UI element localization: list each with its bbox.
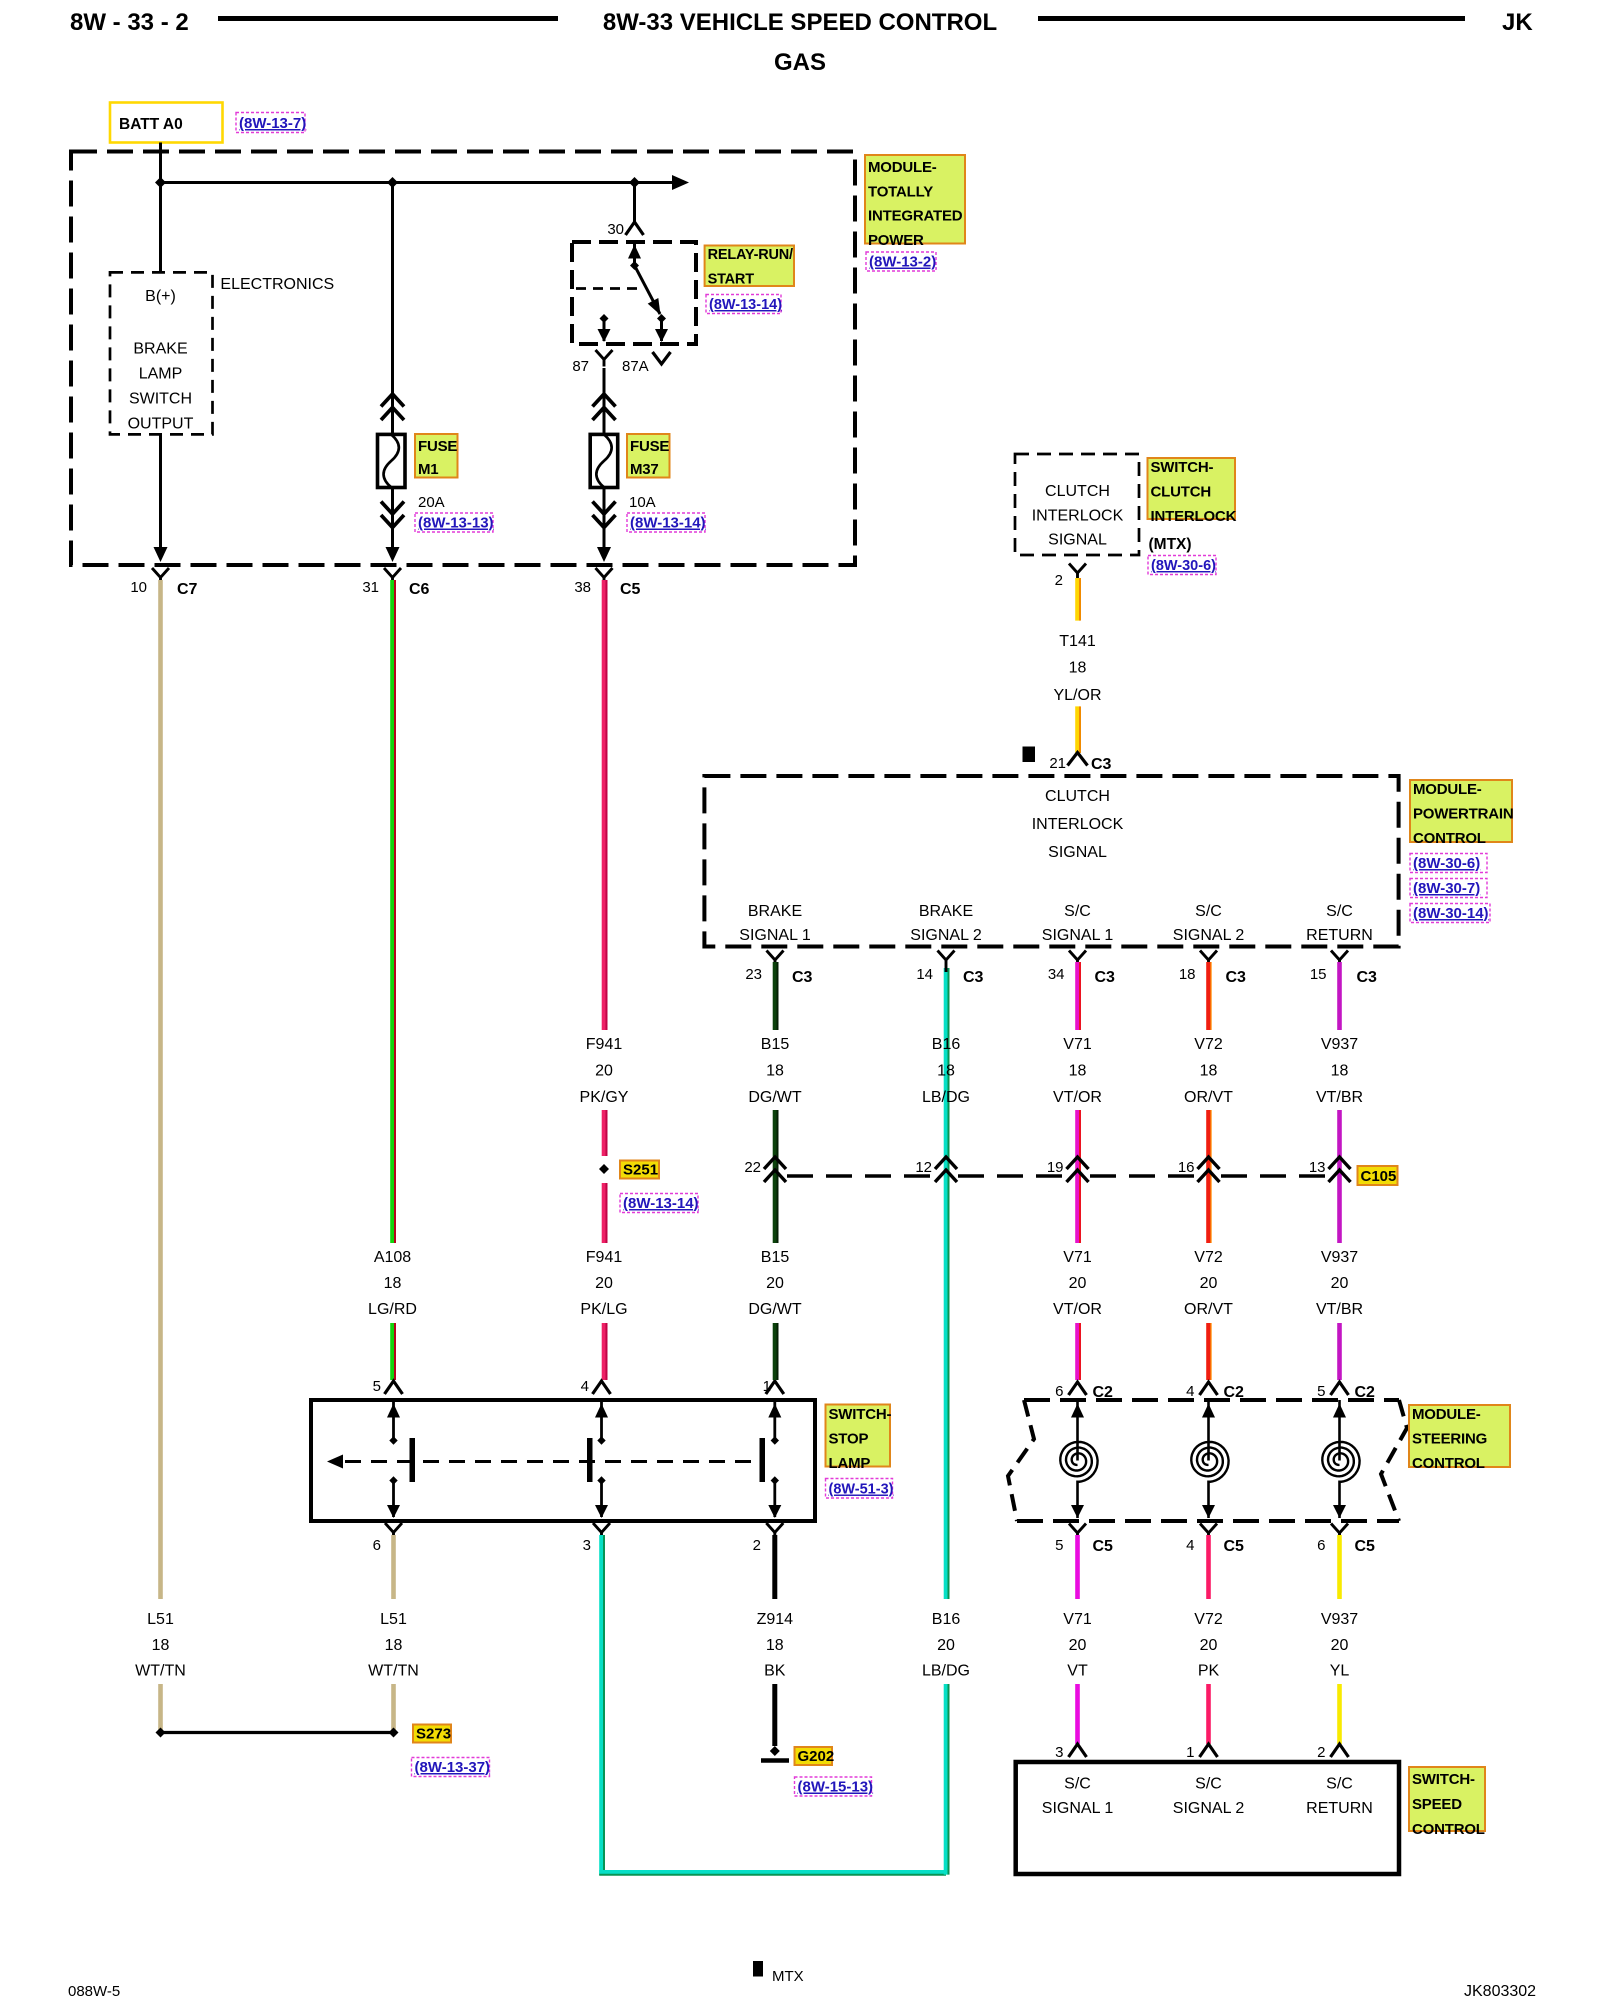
svg-text:Z914: Z914	[757, 1611, 794, 1628]
svg-text:21: 21	[1049, 755, 1066, 772]
link 8W-13-7	[236, 113, 306, 133]
svg-text:SWITCH-: SWITCH-	[829, 1406, 892, 1423]
stop lamp pin 1	[763, 1378, 784, 1395]
svg-text:POWERTRAIN: POWERTRAIN	[1413, 806, 1514, 823]
C105 pin 13	[1309, 1157, 1351, 1182]
svg-text:INTEGRATED: INTEGRATED	[868, 208, 963, 225]
wire V71 VT to speed control pin 3	[1075, 1684, 1080, 1744]
svg-text:V937: V937	[1321, 1249, 1358, 1266]
svg-text:VT: VT	[1067, 1663, 1088, 1680]
svg-text:20: 20	[595, 1275, 613, 1292]
svg-text:DG/WT: DG/WT	[748, 1089, 802, 1106]
svg-text:B15: B15	[761, 1249, 790, 1266]
svg-text:M1: M1	[418, 461, 438, 478]
splice S251	[599, 1164, 609, 1174]
label C105	[1358, 1166, 1398, 1185]
svg-text:SIGNAL 1: SIGNAL 1	[1042, 927, 1114, 944]
svg-text:8W - 33 - 2: 8W - 33 - 2	[70, 9, 189, 36]
svg-text:20: 20	[766, 1275, 784, 1292]
wire V72 OR/VT to steering C2 4	[1206, 1323, 1211, 1380]
svg-text:SIGNAL 2: SIGNAL 2	[910, 927, 982, 944]
PCM internal CLUTCH INTERLOCK SIGNAL	[1032, 788, 1124, 861]
clockspring coil at 5	[1333, 1400, 1346, 1461]
label SWITCH-CLUTCH INTERLOCK	[1148, 458, 1237, 525]
PCM internal BRAKE SIGNAL 2	[910, 903, 982, 944]
svg-text:8W-33 VEHICLE SPEED CONTROL: 8W-33 VEHICLE SPEED CONTROL	[603, 9, 997, 36]
svg-text:(8W-13-14): (8W-13-14)	[709, 297, 782, 313]
svg-text:V71: V71	[1063, 1036, 1092, 1053]
svg-text:T141: T141	[1059, 633, 1096, 650]
wire fuse M1 to C6 exit	[381, 488, 404, 563]
svg-text:19: 19	[1047, 1159, 1064, 1176]
stop lamp actuator dashed link with arrow	[327, 1455, 762, 1469]
wire A108 LG/RD to stop lamp switch pin 5	[390, 1323, 395, 1380]
wire B16 LB/DG from stop lamp pin 3 down	[599, 1535, 604, 1875]
svg-text:C2: C2	[1355, 1384, 1376, 1401]
svg-text:6: 6	[1317, 1537, 1325, 1554]
svg-text:SIGNAL 1: SIGNAL 1	[739, 927, 811, 944]
svg-text:L51: L51	[380, 1611, 407, 1628]
svg-text:GAS: GAS	[774, 49, 826, 76]
svg-text:18: 18	[937, 1063, 955, 1080]
wire T141 YL/OR to PCM pin 21	[1075, 706, 1080, 753]
svg-text:12: 12	[915, 1159, 932, 1176]
wire V71 VT/OR from PCM 34	[1075, 962, 1080, 1030]
svg-text:WT/TN: WT/TN	[135, 1663, 186, 1680]
svg-text:10A: 10A	[629, 494, 656, 511]
junction node bus/fuse M1	[387, 177, 398, 188]
label S273	[413, 1725, 451, 1743]
svg-text:(8W-30-14): (8W-30-14)	[1413, 905, 1489, 922]
wire Z914 BK from stop lamp pin 2	[772, 1535, 777, 1599]
svg-text:87A: 87A	[622, 358, 649, 375]
svg-text:16: 16	[1178, 1159, 1195, 1176]
svg-text:C5: C5	[1355, 1538, 1376, 1555]
svg-text:SWITCH: SWITCH	[129, 390, 192, 407]
splice S273 wire join	[156, 1728, 399, 1738]
svg-text:2: 2	[753, 1537, 761, 1554]
svg-text:(8W-13-7): (8W-13-7)	[239, 115, 306, 132]
svg-text:10: 10	[130, 579, 147, 596]
wire B16 LB/DG riser	[944, 1684, 949, 1875]
speed control pin 3	[1055, 1744, 1086, 1761]
stop lamp contact pole 4-3	[587, 1400, 608, 1518]
steering C2 pin 5	[1317, 1382, 1375, 1401]
svg-text:(MTX): (MTX)	[1149, 536, 1192, 553]
label FUSE M1	[415, 434, 458, 478]
svg-text:18: 18	[1069, 1063, 1087, 1080]
wire relay 87 to fuse M37	[593, 368, 616, 434]
svg-text:STEERING: STEERING	[1412, 1431, 1487, 1448]
svg-text:20: 20	[595, 1063, 613, 1080]
link 8W-13-14 splice	[620, 1194, 699, 1213]
link 8W-30-14	[1410, 904, 1490, 923]
svg-text:31: 31	[362, 579, 379, 596]
svg-text:87: 87	[572, 358, 589, 375]
switch stop lamp box	[311, 1400, 815, 1521]
relay common contact from pin 30	[628, 244, 641, 270]
wire V937 YL to speed control pin 2	[1337, 1684, 1342, 1744]
wire F941 PK/GY to splice S251	[602, 1110, 607, 1156]
svg-text:18: 18	[384, 1275, 402, 1292]
wire V71 VT/OR to C105 19	[1075, 1110, 1080, 1243]
PCM pin 34 C3	[1048, 951, 1115, 987]
svg-text:18: 18	[766, 1063, 784, 1080]
svg-text:V72: V72	[1194, 1611, 1223, 1628]
footnote square MTX marker	[1023, 747, 1036, 763]
svg-text:FUSE: FUSE	[418, 438, 457, 455]
svg-text:(8W-30-6): (8W-30-6)	[1151, 558, 1216, 574]
relay RUN/START dashed box	[572, 242, 696, 344]
svg-text:S/C: S/C	[1195, 1776, 1222, 1793]
svg-text:LAMP: LAMP	[829, 1455, 871, 1472]
svg-text:YL/OR: YL/OR	[1053, 687, 1101, 704]
clutch switch pin 2	[1055, 564, 1086, 590]
steering C5 pin 4	[1186, 1524, 1244, 1556]
terminal 87A connector chevron	[653, 352, 671, 364]
wire bus to relay pin 30	[626, 183, 644, 236]
label MODULE-TOTALLY INTEGRATED POWER	[865, 155, 965, 249]
ground G202	[761, 1746, 789, 1761]
svg-text:SIGNAL 2: SIGNAL 2	[1173, 927, 1245, 944]
svg-text:DG/WT: DG/WT	[748, 1301, 802, 1318]
svg-text:S273: S273	[416, 1726, 451, 1743]
steering C2 pin 6	[1055, 1382, 1113, 1401]
svg-text:(8W-30-7): (8W-30-7)	[1413, 880, 1480, 897]
svg-text:CLUTCH: CLUTCH	[1045, 483, 1110, 500]
svg-text:VT/OR: VT/OR	[1053, 1089, 1102, 1106]
fuse M37	[590, 434, 618, 487]
svg-text:(8W-13-13): (8W-13-13)	[418, 515, 494, 532]
svg-text:20: 20	[1200, 1275, 1218, 1292]
connector C105 dashed line	[787, 1174, 1327, 1177]
svg-text:BRAKE: BRAKE	[919, 903, 973, 920]
C105 pin 22	[744, 1157, 786, 1182]
svg-text:B15: B15	[761, 1036, 790, 1053]
connector pin 31 C6	[362, 568, 429, 598]
svg-text:20: 20	[1069, 1637, 1087, 1654]
svg-text:F941: F941	[586, 1249, 623, 1266]
stop lamp pin 3	[583, 1523, 610, 1554]
svg-text:RETURN: RETURN	[1306, 1800, 1373, 1817]
C105 pin 12	[915, 1157, 957, 1182]
svg-text:MODULE-: MODULE-	[1412, 1406, 1481, 1423]
svg-text:18: 18	[1331, 1063, 1349, 1080]
svg-text:PK/GY: PK/GY	[580, 1089, 629, 1106]
wire V72 OR/VT to C105 16	[1206, 1110, 1211, 1243]
stop lamp pin 5	[373, 1378, 403, 1395]
svg-text:2: 2	[1317, 1744, 1325, 1761]
svg-text:VT/OR: VT/OR	[1053, 1301, 1102, 1318]
wire B15 DG/WT to stop lamp pin 1	[773, 1323, 778, 1380]
PCM pin 15 C3	[1310, 951, 1377, 987]
link 8W-13-13	[415, 513, 494, 532]
svg-text:C3: C3	[1091, 756, 1112, 773]
svg-text:BATT A0: BATT A0	[119, 116, 183, 133]
svg-text:S/C: S/C	[1064, 903, 1091, 920]
wire V72 OR/VT from PCM 18	[1206, 962, 1211, 1030]
svg-text:G202: G202	[798, 1748, 835, 1765]
link 8W-30-7	[1410, 879, 1487, 898]
svg-text:C3: C3	[1357, 969, 1378, 986]
svg-text:A108: A108	[374, 1249, 411, 1266]
svg-text:BRAKE: BRAKE	[748, 903, 802, 920]
svg-text:B16: B16	[932, 1036, 961, 1053]
PCM pin 14 C3	[916, 951, 983, 987]
svg-text:34: 34	[1048, 966, 1065, 983]
wire fuse M37 to C5 exit	[593, 488, 616, 563]
svg-text:18: 18	[152, 1637, 170, 1654]
C105 pin 16	[1178, 1157, 1220, 1182]
wire F941 PK/GY from C5	[602, 580, 607, 1030]
svg-text:2: 2	[1055, 572, 1063, 589]
svg-text:START: START	[708, 272, 755, 288]
wire B(+) output to C7 exit	[154, 434, 168, 562]
switch speed control box	[1016, 1762, 1399, 1874]
steering C5 pin 6	[1317, 1524, 1375, 1556]
PCM pin 23 C3	[745, 951, 812, 987]
svg-text:30: 30	[607, 221, 624, 238]
speed control S/C RETURN	[1306, 1776, 1373, 1818]
svg-text:MODULE-: MODULE-	[1413, 781, 1482, 798]
svg-text:(8W-15-13): (8W-15-13)	[798, 1779, 874, 1796]
label SWITCH-STOP LAMP	[826, 1405, 892, 1473]
svg-text:WT/TN: WT/TN	[368, 1663, 419, 1680]
svg-text:20: 20	[1331, 1275, 1349, 1292]
svg-text:OUTPUT: OUTPUT	[128, 415, 194, 432]
svg-text:LB/DG: LB/DG	[922, 1089, 970, 1106]
svg-text:MODULE-: MODULE-	[868, 159, 937, 176]
svg-text:S251: S251	[623, 1162, 658, 1179]
svg-text:18: 18	[1200, 1063, 1218, 1080]
svg-text:RETURN: RETURN	[1306, 927, 1373, 944]
PCM pin 21 C3	[1049, 753, 1111, 774]
svg-text:M37: M37	[630, 461, 659, 478]
svg-text:(8W-30-6): (8W-30-6)	[1413, 855, 1480, 872]
PCM internal S/C SIGNAL 2	[1173, 903, 1245, 944]
relay movable contact arm to 87A	[635, 266, 667, 324]
svg-text:MTX: MTX	[772, 1968, 804, 1985]
svg-text:ELECTRONICS: ELECTRONICS	[220, 276, 334, 293]
svg-text:S/C: S/C	[1195, 903, 1222, 920]
svg-text:SIGNAL: SIGNAL	[1048, 844, 1107, 861]
PCM internal S/C SIGNAL 1	[1042, 903, 1114, 944]
svg-text:C3: C3	[1226, 969, 1247, 986]
label MODULE-STEERING CONTROL	[1409, 1405, 1510, 1472]
svg-text:SIGNAL 2: SIGNAL 2	[1173, 1800, 1245, 1817]
svg-text:C105: C105	[1361, 1168, 1397, 1185]
footnote MTX marker	[753, 1961, 804, 1985]
wire Z914 BK to ground	[772, 1684, 777, 1746]
wire battery feed drop	[159, 143, 162, 273]
svg-text:VT/BR: VT/BR	[1316, 1089, 1363, 1106]
wire T141 YL/OR from clutch switch	[1075, 578, 1080, 621]
svg-text:4: 4	[581, 1378, 589, 1395]
speed control S/C SIGNAL 1	[1042, 1776, 1114, 1818]
svg-text:B16: B16	[932, 1611, 961, 1628]
svg-text:5: 5	[373, 1378, 381, 1395]
svg-text:C5: C5	[1093, 1538, 1114, 1555]
svg-text:CONTROL: CONTROL	[1412, 1455, 1485, 1472]
speed control pin 2	[1317, 1744, 1348, 1761]
svg-text:L51: L51	[147, 1611, 174, 1628]
wire V937 YL from steering C5 6	[1337, 1535, 1342, 1599]
link 8W-30-6	[1410, 854, 1487, 873]
svg-text:3: 3	[1055, 1744, 1063, 1761]
svg-text:18: 18	[1179, 966, 1196, 983]
clockspring coil at 4	[1202, 1400, 1215, 1461]
module powertrain control dashed box	[704, 776, 1398, 947]
wire V937 VT/BR to steering C2 5	[1337, 1323, 1342, 1380]
clockspring coil at 6	[1071, 1400, 1084, 1461]
label S251	[620, 1161, 659, 1179]
link 8W-15-13	[795, 1777, 874, 1796]
svg-text:6: 6	[373, 1537, 381, 1554]
module TIPM dashed outline	[71, 152, 855, 566]
svg-text:V72: V72	[1194, 1036, 1223, 1053]
svg-text:SPEED: SPEED	[1412, 1796, 1462, 1813]
stop lamp contact pole 1-2	[760, 1400, 782, 1518]
svg-text:OR/VT: OR/VT	[1184, 1089, 1233, 1106]
module steering control torn dashed outline	[1008, 1400, 1407, 1521]
wire V71 VT/OR to steering C2 6	[1075, 1323, 1080, 1380]
wire L51 WT/TN to splice S273	[158, 1684, 163, 1730]
wire V937 VT/BR to C105 13	[1337, 1110, 1342, 1243]
svg-text:CLUTCH: CLUTCH	[1151, 484, 1211, 501]
svg-text:STOP: STOP	[829, 1431, 869, 1448]
svg-text:15: 15	[1310, 966, 1327, 983]
speed control S/C SIGNAL 2	[1173, 1776, 1245, 1818]
svg-text:1: 1	[1186, 1744, 1194, 1761]
wire V71 VT from steering C5 5	[1075, 1535, 1080, 1599]
wire L51 WT/TN from stop lamp pin 6	[391, 1535, 396, 1599]
connector pin 10 C7	[130, 568, 197, 598]
link 8W-13-2	[866, 252, 936, 271]
svg-text:V937: V937	[1321, 1036, 1358, 1053]
svg-text:S/C: S/C	[1064, 1776, 1091, 1793]
svg-text:23: 23	[745, 966, 762, 983]
svg-text:FUSE: FUSE	[630, 438, 669, 455]
stop lamp pin 6	[373, 1523, 402, 1554]
stop lamp contact pole 5-6	[387, 1400, 415, 1518]
svg-text:4: 4	[1186, 1383, 1194, 1400]
svg-text:INTERLOCK: INTERLOCK	[1032, 508, 1124, 525]
stop lamp pin 2	[753, 1523, 784, 1554]
PCM pin 18 C3	[1179, 951, 1246, 987]
svg-text:18: 18	[1069, 660, 1087, 677]
svg-text:5: 5	[1055, 1537, 1063, 1554]
link 8W-13-14 fuse	[627, 513, 706, 532]
wire B16 LB/DG bottom run	[599, 1870, 946, 1875]
relay coil actuation dashed line	[576, 287, 637, 290]
fuse M1	[378, 434, 406, 487]
svg-text:20A: 20A	[418, 494, 445, 511]
svg-text:C5: C5	[620, 581, 641, 598]
svg-text:OR/VT: OR/VT	[1184, 1301, 1233, 1318]
svg-text:CONTROL: CONTROL	[1412, 1821, 1485, 1838]
connector pin 38 C5	[574, 568, 640, 598]
svg-text:(8W-13-2): (8W-13-2)	[869, 254, 936, 271]
wire V72 PK from steering C5 4	[1206, 1535, 1211, 1599]
wire V72 PK to speed control pin 1	[1206, 1684, 1211, 1744]
svg-text:C5: C5	[1224, 1538, 1245, 1555]
svg-text:6: 6	[1055, 1383, 1063, 1400]
link 8W-13-37	[412, 1758, 491, 1777]
svg-text:4: 4	[1186, 1537, 1194, 1554]
svg-text:B(+): B(+)	[145, 288, 176, 305]
svg-text:F941: F941	[586, 1036, 623, 1053]
svg-text:18: 18	[385, 1637, 403, 1654]
svg-text:20: 20	[937, 1637, 955, 1654]
svg-text:V71: V71	[1063, 1249, 1092, 1266]
svg-text:LB/DG: LB/DG	[922, 1663, 970, 1680]
svg-text:JK803302: JK803302	[1464, 1983, 1536, 2000]
svg-text:C3: C3	[1095, 969, 1116, 986]
steering C5 pin 5	[1055, 1524, 1113, 1556]
svg-text:20: 20	[1200, 1637, 1218, 1654]
relay terminal 87 leg	[598, 314, 611, 342]
svg-text:C2: C2	[1093, 1384, 1114, 1401]
PCM internal S/C RETURN	[1306, 903, 1373, 944]
wire bus to fuse M1	[381, 183, 404, 435]
svg-text:20: 20	[1331, 1637, 1349, 1654]
link 8W-13-14 relay	[706, 295, 782, 314]
svg-text:PK/LG: PK/LG	[580, 1301, 627, 1318]
svg-text:V937: V937	[1321, 1611, 1358, 1628]
svg-text:(8W-13-37): (8W-13-37)	[415, 1759, 491, 1776]
wire B16 LB/DG to C105	[944, 968, 949, 1599]
link 8W-51-3	[826, 1479, 894, 1499]
wire L51 WT/TN pin6 to splice S273	[391, 1684, 396, 1730]
svg-text:V71: V71	[1063, 1611, 1092, 1628]
svg-text:SWITCH-: SWITCH-	[1151, 459, 1214, 476]
svg-text:(8W-51-3): (8W-51-3)	[829, 1482, 894, 1498]
junction node bus/relay	[629, 177, 640, 188]
svg-text:LG/RD: LG/RD	[368, 1301, 417, 1318]
svg-text:BK: BK	[764, 1663, 786, 1680]
link 8W-30-6 switch	[1148, 556, 1216, 575]
svg-text:088W-5: 088W-5	[68, 1983, 120, 2000]
PCM internal BRAKE SIGNAL 1	[739, 903, 811, 944]
page header title	[70, 9, 1533, 76]
bus wire B+ with arrow	[161, 175, 690, 190]
svg-text:C7: C7	[177, 581, 198, 598]
relay terminal 87A leg	[655, 319, 668, 343]
speed control pin 1	[1186, 1744, 1217, 1761]
label G202	[795, 1747, 835, 1765]
wire B15 DG/WT to C105 22	[773, 1110, 778, 1243]
svg-text:S/C: S/C	[1326, 903, 1353, 920]
wire A108 LG/RD from C6	[390, 580, 395, 1243]
battery feed BATT A0	[110, 103, 223, 143]
clockspring lower lead 4	[1202, 1481, 1215, 1519]
svg-text:22: 22	[744, 1159, 761, 1176]
terminal 87 connector Y	[596, 350, 613, 360]
svg-text:CLUTCH: CLUTCH	[1045, 788, 1110, 805]
wire L51 WT/TN from C7	[158, 580, 163, 1599]
wire V937 VT/BR from PCM 15	[1337, 962, 1342, 1030]
svg-text:C3: C3	[792, 969, 813, 986]
svg-text:V72: V72	[1194, 1249, 1223, 1266]
switch clutch interlock dashed box	[1015, 454, 1139, 555]
clockspring lower lead 5	[1071, 1481, 1084, 1519]
svg-text:SWITCH-: SWITCH-	[1412, 1771, 1475, 1788]
svg-text:VT/BR: VT/BR	[1316, 1301, 1363, 1318]
svg-text:20: 20	[1069, 1275, 1087, 1292]
svg-text:INTERLOCK: INTERLOCK	[1032, 816, 1124, 833]
svg-text:JK: JK	[1502, 9, 1533, 36]
svg-text:RELAY-RUN/: RELAY-RUN/	[708, 247, 793, 263]
